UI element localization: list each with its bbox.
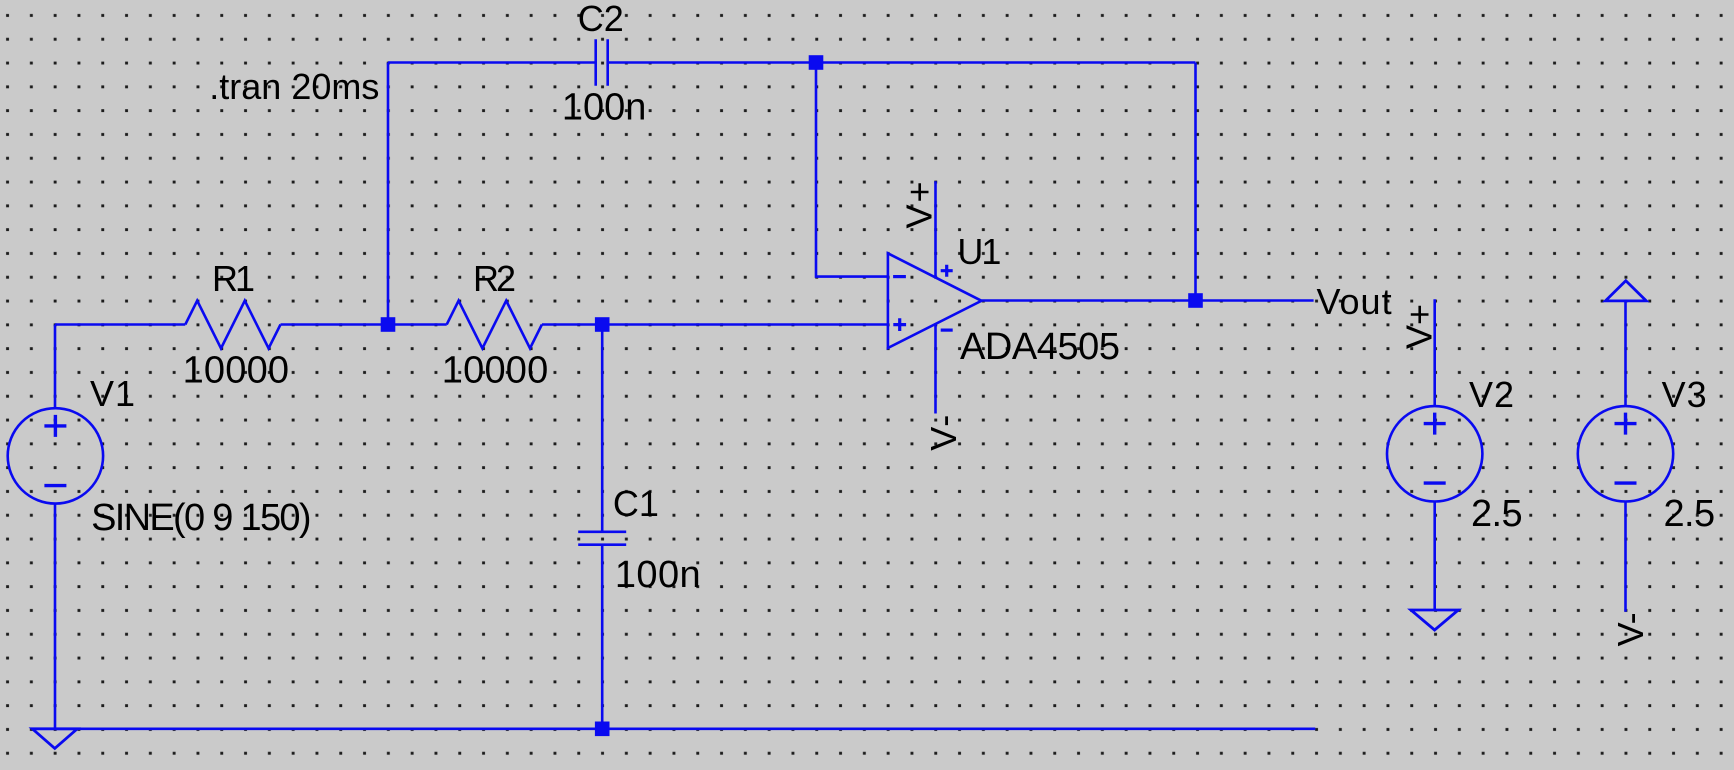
svg-text:100n: 100n — [562, 86, 647, 128]
V2 plus mark — [1424, 413, 1446, 435]
wire top feedback rail — [388, 61, 1196, 64]
node junction C1 bottom rail — [595, 722, 610, 737]
capacitor C1 — [578, 532, 626, 545]
op-amp V- power pin — [934, 324, 937, 414]
svg-text:C2: C2 — [578, 0, 624, 39]
wire feedback drop to op-amp inverting input — [816, 63, 888, 277]
wire V1 top lead — [54, 325, 57, 409]
svg-text:R1: R1 — [212, 258, 254, 299]
V3 minus mark — [1615, 481, 1637, 484]
svg-text:SINE(0 9 150): SINE(0 9 150) — [91, 497, 310, 539]
svg-text:V1: V1 — [90, 373, 136, 414]
V1 plus mark — [44, 415, 66, 437]
svg-text:C1: C1 — [613, 483, 659, 524]
V3 plus mark — [1615, 413, 1637, 435]
svg-text:.tran 20ms: .tran 20ms — [209, 66, 379, 107]
svg-text:V+: V+ — [1399, 304, 1440, 349]
wire right vertical from top rail to output — [1194, 63, 1197, 301]
svg-text:100n: 100n — [615, 554, 701, 596]
wire V1 bottom lead — [54, 504, 57, 729]
op-amp non-inverting input mark — [893, 318, 906, 331]
wire op-amp output to Vout — [982, 299, 1314, 302]
node junction top rail to inverting input — [809, 55, 824, 70]
wire C1 top lead — [601, 325, 604, 532]
svg-text:10000: 10000 — [442, 349, 549, 391]
wire V2 top lead — [1433, 299, 1436, 406]
op-amp inverting input mark — [893, 275, 906, 278]
resistor R2 — [447, 301, 542, 349]
ground at V1 — [32, 729, 77, 749]
capacitor C2 — [596, 39, 608, 86]
svg-text:V+: V+ — [899, 179, 940, 228]
svg-text:V-: V- — [1610, 612, 1651, 646]
op-amp V+ power pin — [934, 181, 937, 277]
svg-text:Vout: Vout — [1317, 281, 1393, 322]
wire R1 to R2 — [281, 323, 447, 326]
node junction R1-R2-C2left — [381, 317, 396, 332]
voltage source V2 circle — [1387, 406, 1482, 501]
voltage source V1 circle — [8, 408, 103, 503]
wire R2 to op-amp non-inverting input — [542, 323, 888, 326]
op-amp U1 triangle — [888, 253, 982, 348]
svg-text:ADA4505: ADA4505 — [960, 326, 1120, 368]
wire left vertical from top rail to main line — [387, 63, 390, 325]
node junction output — [1188, 293, 1203, 308]
V1 minus mark — [44, 484, 66, 487]
svg-text:V-: V- — [923, 413, 964, 451]
ground at V2 — [1411, 610, 1458, 630]
svg-text:V2: V2 — [1469, 374, 1515, 415]
V2 minus mark — [1424, 481, 1446, 484]
svg-text:2.5: 2.5 — [1664, 493, 1715, 535]
resistor R1 — [185, 301, 280, 349]
wire C1 bottom lead — [601, 545, 604, 729]
op-amp V+ polarity mark — [941, 265, 953, 277]
wire bottom rail — [55, 727, 1315, 730]
op-amp V- polarity mark — [941, 329, 953, 332]
wire main input line segment V1 to R1 — [55, 323, 185, 326]
wire V3 bottom lead — [1624, 502, 1627, 612]
voltage source V3 circle — [1578, 406, 1673, 501]
svg-text:2.5: 2.5 — [1471, 493, 1522, 535]
wire V3 top lead — [1624, 301, 1627, 406]
svg-text:10000: 10000 — [183, 349, 290, 391]
svg-text:U1: U1 — [957, 231, 1000, 272]
svg-text:R2: R2 — [473, 258, 515, 299]
node junction R2-C1-opamp — [595, 317, 610, 332]
wire V2 bottom lead — [1433, 502, 1436, 611]
svg-text:V3: V3 — [1662, 374, 1708, 415]
inverted ground at V3 top — [1605, 281, 1646, 301]
